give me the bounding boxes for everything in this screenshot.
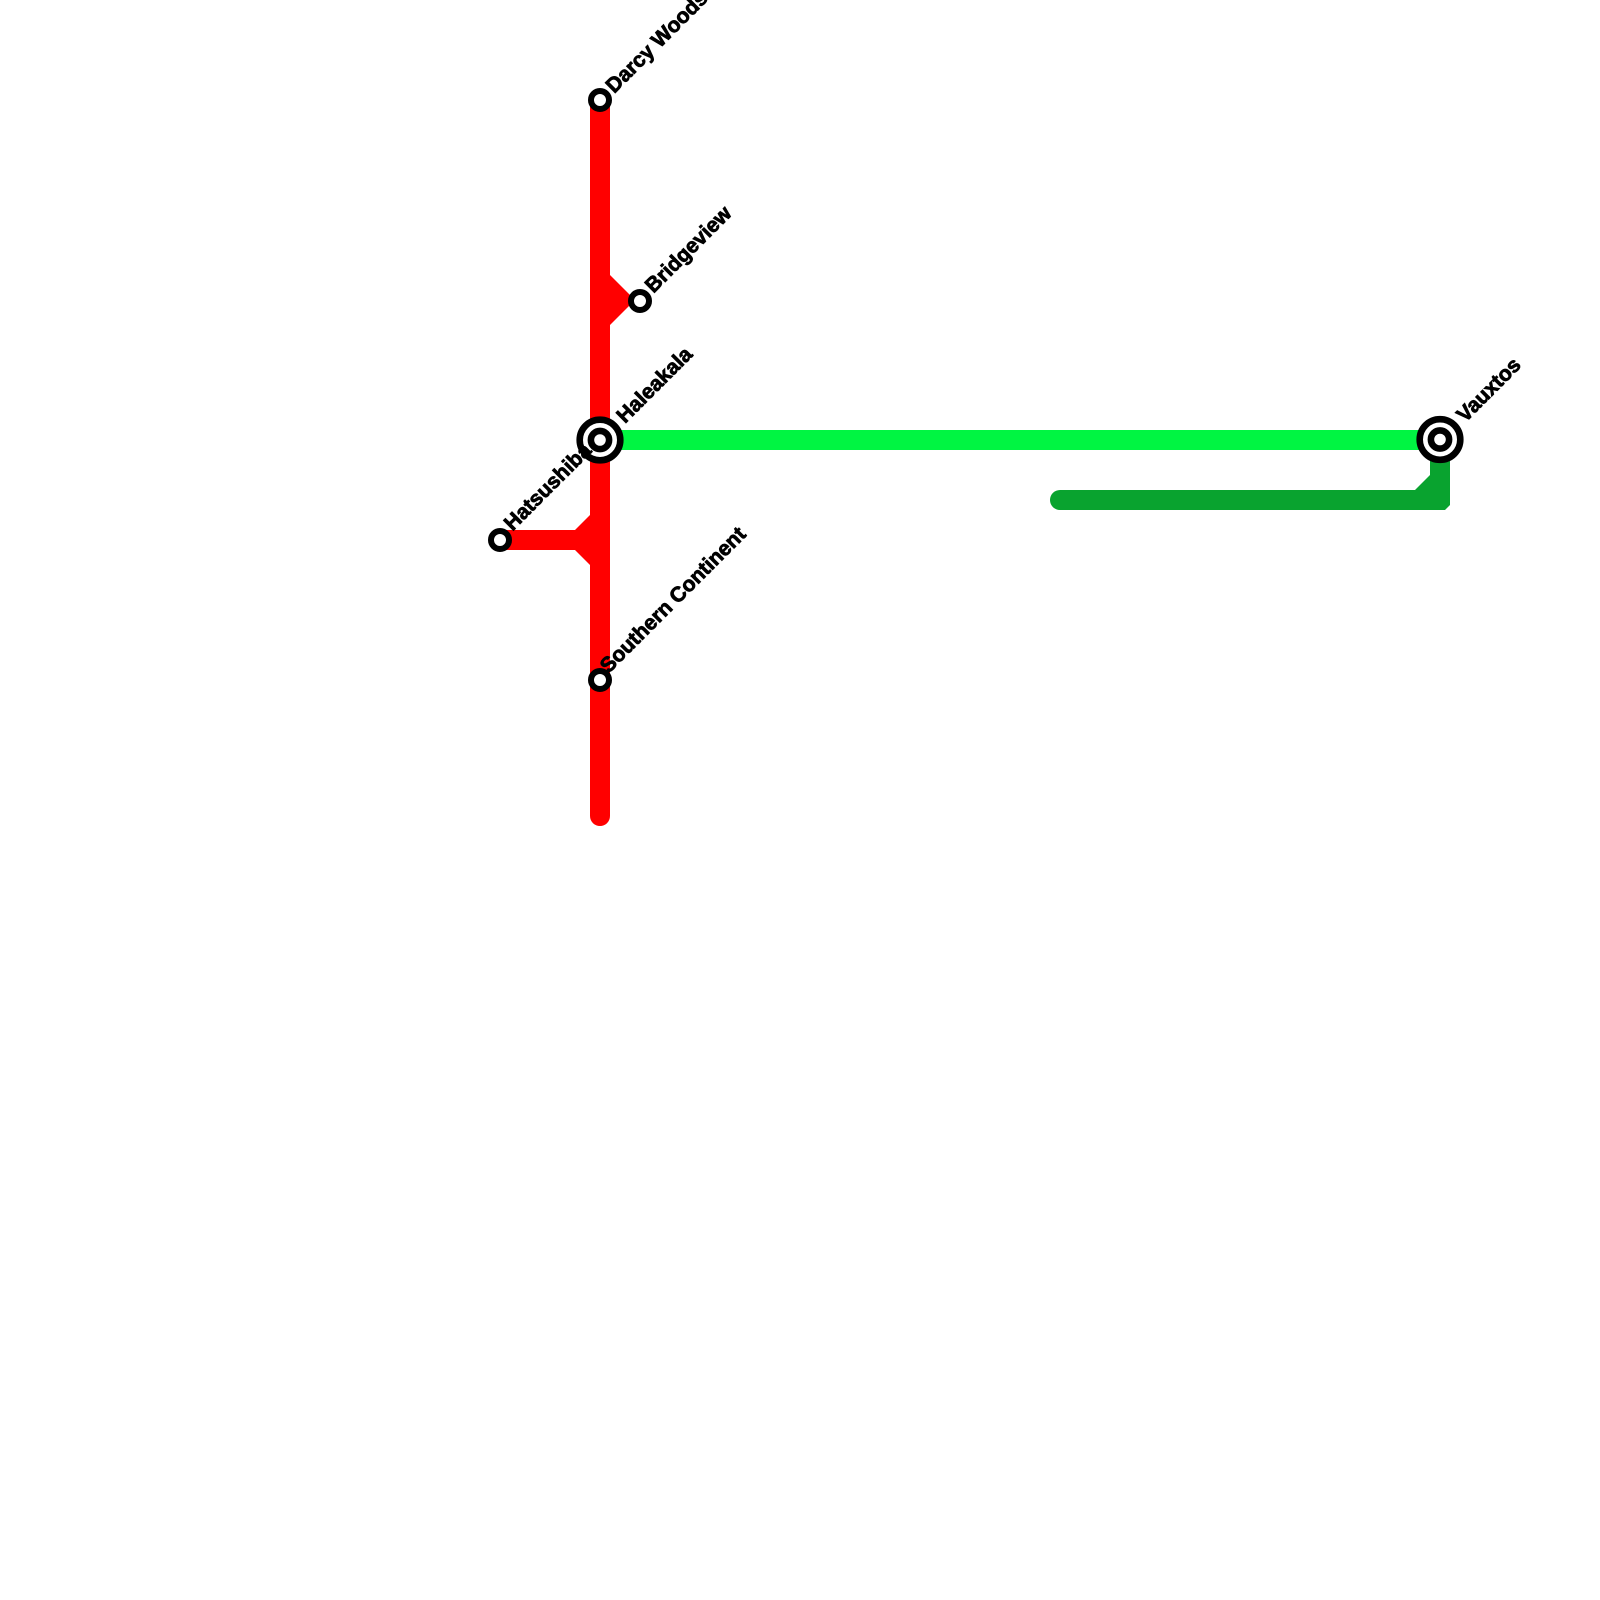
interchange station Vauxtos [1420, 419, 1461, 460]
interchange station Haleakala [580, 420, 621, 461]
svg-text:Southern Continent: Southern Continent [596, 523, 751, 678]
red line trunk [590, 100, 610, 816]
svg-text:Haleakala: Haleakala [612, 343, 697, 428]
station Darcy Woods [591, 91, 609, 109]
red line branch wedge to Bridgeview [593, 258, 635, 342]
station Hatsushiba [491, 531, 509, 549]
svg-text:Vauxtos: Vauxtos [1452, 353, 1525, 426]
svg-text:Darcy Woods: Darcy Woods [602, 0, 713, 98]
red line branch wedge at Hatsushiba junction [575, 513, 603, 567]
red line branch to Hatsushiba [500, 530, 575, 550]
bright green line Haleakala to Vauxtos [600, 430, 1440, 450]
svg-text:Hatsushiba: Hatsushiba [500, 439, 597, 536]
station Bridgeview [631, 292, 649, 310]
station Southern Continent [591, 671, 609, 689]
dark green line [1050, 440, 1450, 510]
svg-text:Bridgeview: Bridgeview [641, 201, 737, 297]
